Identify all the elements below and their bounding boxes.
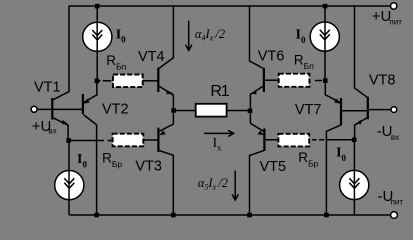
node bottom rail VT3 — [171, 213, 176, 218]
current source I0 top-left — [83, 6, 112, 81]
resistor RБп left — [99, 75, 158, 88]
terminal -Uвх — [391, 107, 397, 113]
wire top supply rail — [69, 5, 391, 7]
transistor VT3 — [158, 124, 173, 215]
terminal +Uпит — [391, 3, 397, 9]
svg-text:пит: пит — [389, 18, 402, 27]
node VT2 emitter / RБп — [95, 79, 100, 84]
annotation arrow Ix — [204, 130, 234, 136]
node bottom rail VT5 — [247, 213, 252, 218]
node top rail / I0 left — [95, 4, 100, 9]
resistor RБп right — [279, 74, 322, 87]
svg-text:вх: вх — [48, 127, 56, 136]
node VT7 emitter / RБп — [323, 78, 328, 83]
svg-text:VT8: VT8 — [369, 73, 396, 89]
current source I0 bottom-right — [340, 140, 369, 215]
resistor RБр right — [278, 134, 354, 147]
node VT1 emitter / RБр — [66, 138, 71, 143]
terminal +Uвх — [31, 106, 37, 112]
transistor VT4 — [158, 6, 173, 124]
svg-text:VT4: VT4 — [138, 49, 165, 65]
svg-text:VT6: VT6 — [258, 49, 285, 65]
svg-text:VT1: VT1 — [34, 80, 61, 96]
node bottom rail VT2 — [94, 213, 99, 218]
svg-text:VT5: VT5 — [260, 159, 287, 175]
svg-text:+U: +U — [372, 8, 392, 25]
transistor VT5 — [250, 123, 279, 215]
svg-text:R1: R1 — [210, 83, 229, 100]
annotation arrow a5Ix/2 — [232, 171, 238, 201]
annotation arrow a4Ix/2 — [186, 21, 192, 51]
node top rail / I0 right — [323, 4, 328, 9]
transistor VT8 — [355, 6, 392, 140]
current source I0 bottom-left — [55, 141, 84, 216]
svg-text:пит: пит — [391, 197, 404, 206]
svg-text:вх: вх — [391, 133, 399, 142]
terminal -Uпит — [391, 212, 398, 219]
transistor VT6 — [250, 6, 279, 123]
node R1 right — [248, 109, 253, 114]
resistor RБр left — [69, 134, 158, 147]
current source I0 top-right — [310, 6, 339, 81]
transistor VT1 — [37, 6, 82, 141]
transistor VT7 — [325, 81, 367, 215]
svg-text:VT2: VT2 — [102, 102, 129, 118]
node bottom rail VT7 — [324, 213, 329, 218]
wire bottom supply rail — [69, 214, 390, 216]
resistor R1 — [174, 104, 250, 117]
svg-text:VT3: VT3 — [135, 158, 162, 174]
transistor VT2 — [83, 81, 97, 215]
node VT8 emitter / RБр — [352, 138, 357, 143]
svg-text:VT7: VT7 — [295, 102, 322, 118]
node R1 left — [171, 108, 176, 113]
